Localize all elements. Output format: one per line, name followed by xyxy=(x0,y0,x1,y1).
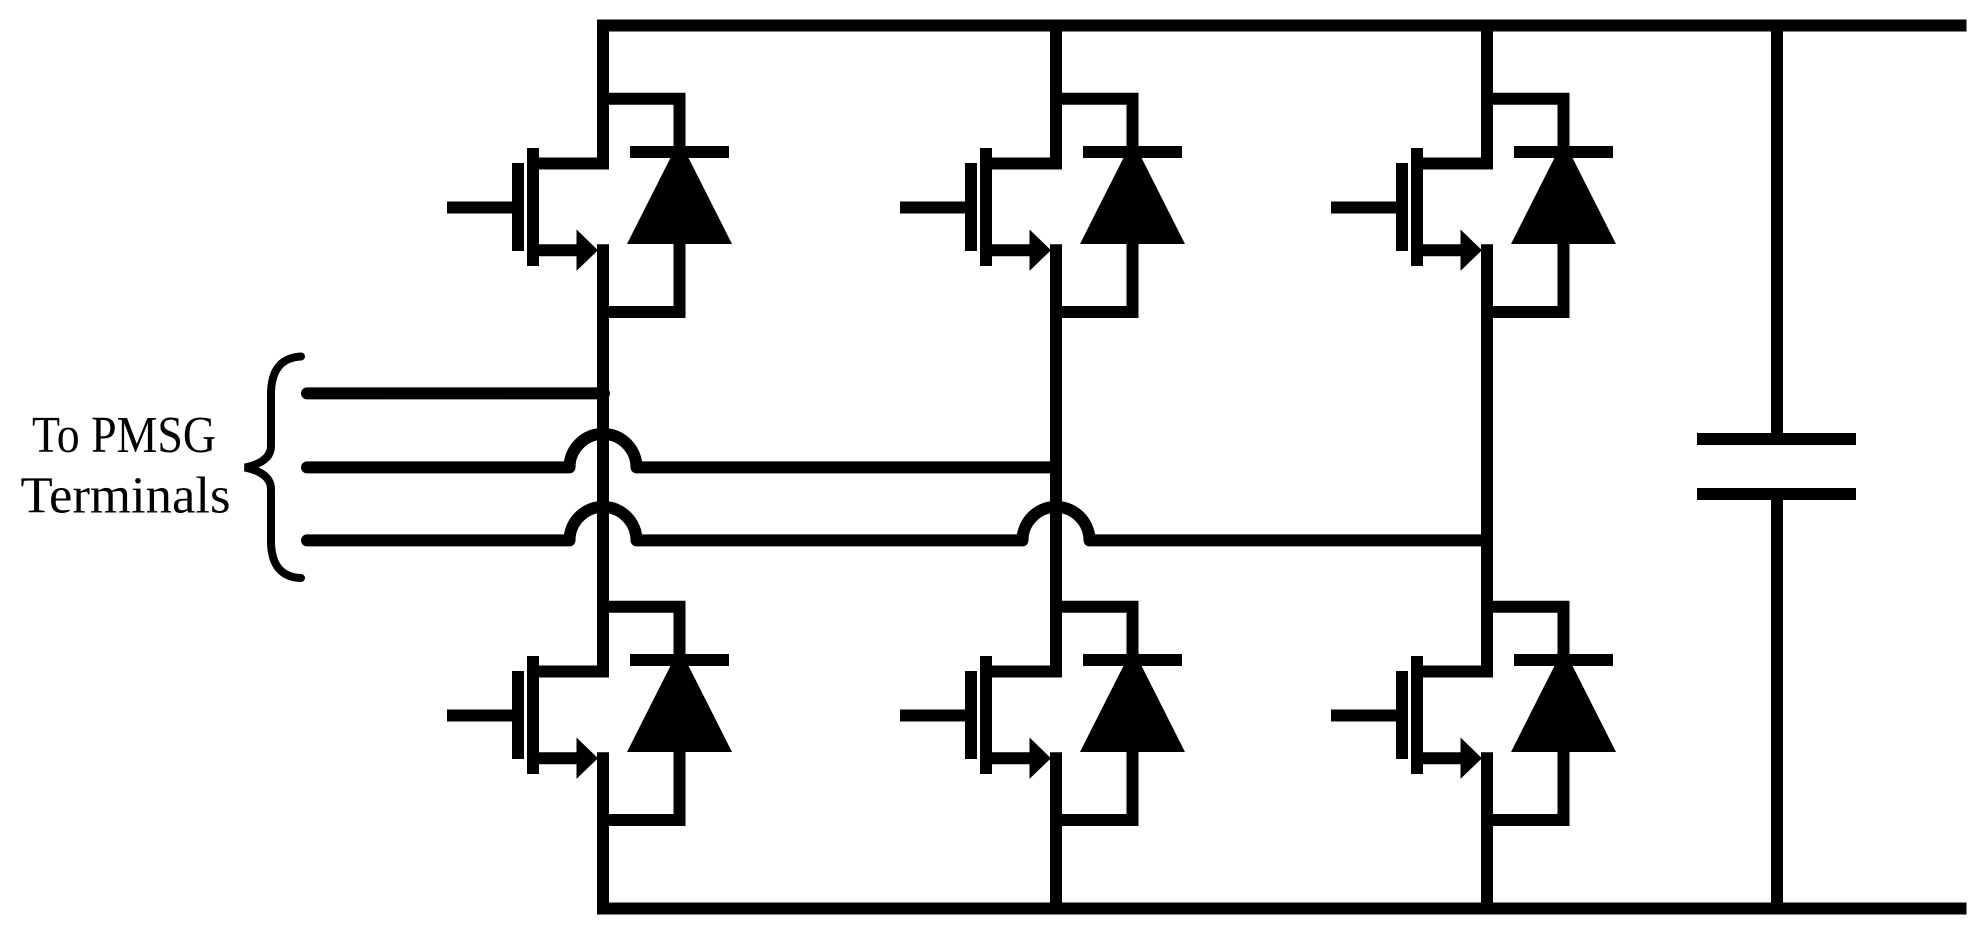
svg-text:Terminals: Terminals xyxy=(21,468,231,525)
svg-text:To PMSG: To PMSG xyxy=(32,407,216,464)
